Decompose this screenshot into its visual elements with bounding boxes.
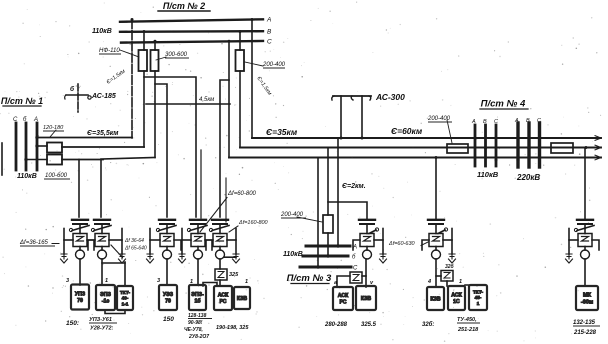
svg-text:П/ст № 4: П/ст № 4	[481, 99, 526, 110]
svg-text:С: С	[537, 118, 541, 124]
svg-text:П/ст № 1: П/ст № 1	[1, 96, 43, 106]
svg-text:45-: 45-	[475, 295, 482, 300]
svg-text:УПЗ: УПЗ	[75, 292, 86, 298]
svg-text:325.5: 325.5	[361, 322, 377, 328]
svg-text:110кВ: 110кВ	[17, 173, 37, 180]
svg-text:РС: РС	[219, 299, 226, 305]
svg-text:ЭПЗ: ЭПЗ	[100, 292, 111, 298]
svg-text:1: 1	[190, 279, 193, 285]
svg-text:Δf=60-800: Δf=60-800	[227, 191, 257, 197]
svg-text:190-198, 325: 190-198, 325	[216, 325, 249, 331]
svg-text:1С: 1С	[453, 299, 460, 305]
svg-text:70: 70	[165, 299, 171, 305]
svg-text:-1с: -1с	[102, 299, 110, 305]
svg-text:220кВ: 220кВ	[516, 173, 540, 182]
svg-text:200-400: 200-400	[280, 212, 304, 218]
svg-text:А: А	[471, 119, 476, 125]
svg-text:ТКТ-: ТКТ-	[120, 290, 131, 295]
svg-text:В: В	[483, 119, 487, 125]
svg-text:3: 3	[157, 278, 160, 284]
svg-text:Δf=160-800: Δf=160-800	[238, 220, 269, 226]
svg-text:4,5км: 4,5км	[199, 97, 214, 103]
svg-text:У28-У72:: У28-У72:	[90, 326, 114, 332]
svg-text:3: 3	[66, 278, 69, 284]
svg-text:АСК: АСК	[218, 293, 229, 299]
svg-text:150: 150	[163, 316, 174, 323]
svg-text:110кВ: 110кВ	[477, 170, 499, 179]
svg-text:ТУ-450,: ТУ-450,	[457, 317, 477, 323]
svg-text:Δf=36-165: Δf=36-165	[19, 240, 49, 246]
svg-text:а: а	[334, 280, 337, 286]
svg-text:С: С	[494, 119, 498, 125]
svg-text:Є=35км: Є=35км	[266, 127, 298, 137]
svg-text:1: 1	[105, 278, 108, 284]
svg-text:РС: РС	[339, 300, 346, 306]
svg-text:200-400: 200-400	[427, 116, 451, 122]
svg-text:-60м: -60м	[581, 299, 593, 305]
svg-text:1: 1	[245, 279, 248, 285]
svg-text:П/ст № 2: П/ст № 2	[163, 1, 205, 11]
svg-text:200-400: 200-400	[262, 62, 286, 68]
svg-text:300-600: 300-600	[165, 52, 188, 58]
svg-text:2У8-2О7: 2У8-2О7	[188, 334, 209, 340]
svg-text:280-288: 280-288	[324, 322, 348, 328]
svg-text:70: 70	[77, 298, 83, 304]
svg-text:90-98!: 90-98!	[188, 320, 203, 326]
svg-text:КЗВ: КЗВ	[430, 296, 441, 302]
svg-text:1б: 1б	[194, 298, 200, 305]
svg-text:ЭПЗ-: ЭПЗ-	[191, 292, 204, 298]
svg-text:ТКТ-: ТКТ-	[473, 289, 484, 294]
svg-text:Δf=60-630: Δf=60-630	[388, 241, 415, 247]
svg-text:40-: 40-	[122, 296, 129, 301]
svg-text:В: В	[267, 29, 272, 36]
svg-text:215-228: 215-228	[573, 330, 597, 336]
svg-text:П/ст № 3: П/ст № 3	[287, 273, 332, 284]
svg-text:132-135: 132-135	[573, 320, 596, 326]
svg-text:Δf 65-640: Δf 65-640	[124, 246, 147, 252]
svg-text:100-600: 100-600	[45, 173, 68, 179]
svg-text:С: С	[13, 117, 18, 123]
svg-text:АС-300: АС-300	[375, 92, 405, 102]
svg-text:С: С	[267, 39, 272, 46]
svg-text:АСК: АСК	[338, 293, 349, 299]
svg-text:120-180: 120-180	[43, 125, 64, 131]
svg-text:НФ-110: НФ-110	[99, 48, 120, 54]
svg-text:150:: 150:	[66, 320, 79, 327]
svg-text:1: 1	[477, 301, 480, 306]
svg-text:110кВ: 110кВ	[92, 28, 112, 35]
svg-text:1: 1	[459, 279, 462, 285]
svg-text:Є=2км.: Є=2км.	[342, 183, 366, 190]
svg-text:Є=60км: Є=60км	[391, 126, 423, 136]
svg-text:МК: МК	[583, 293, 592, 299]
svg-text:А: А	[33, 117, 38, 123]
svg-text:УЭЗ: УЭЗ	[163, 292, 174, 298]
svg-text:1-1: 1-1	[122, 301, 129, 306]
svg-text:32б:: 32б:	[422, 321, 434, 328]
svg-text:КЗВ: КЗВ	[237, 296, 248, 302]
svg-text:32б: 32б	[445, 263, 455, 270]
svg-text:4: 4	[427, 279, 431, 285]
svg-text:Є=35,5км: Є=35,5км	[87, 130, 119, 137]
svg-text:251-218: 251-218	[457, 327, 479, 333]
svg-text:КЗВ: КЗВ	[361, 296, 372, 302]
svg-text:325: 325	[229, 272, 239, 278]
svg-text:110кВ: 110кВ	[283, 251, 303, 258]
svg-text:АСК: АСК	[451, 293, 462, 299]
svg-text:А: А	[352, 245, 357, 251]
svg-text:ЧЕ-У78,: ЧЕ-У78,	[184, 327, 203, 333]
svg-text:В: В	[526, 118, 530, 124]
svg-text:АС-185: АС-185	[91, 93, 116, 100]
svg-text:Δf 36-64: Δf 36-64	[124, 238, 144, 244]
svg-text:С: С	[353, 266, 358, 272]
svg-text:УПЗ-У61: УПЗ-У61	[89, 317, 112, 323]
svg-text:А: А	[514, 118, 519, 124]
svg-text:А: А	[266, 17, 271, 24]
